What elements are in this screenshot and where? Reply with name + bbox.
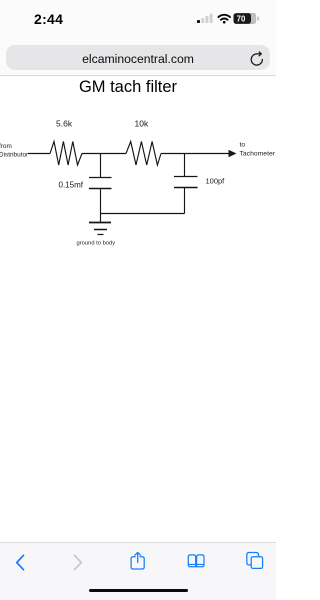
wire: R1 to R2 through node A <box>82 153 126 155</box>
resistor R2 <box>126 142 161 166</box>
page title <box>0 78 256 97</box>
toolbar: tabs icon <box>247 553 263 569</box>
bottom toolbar <box>0 542 276 600</box>
wire: input from Distributor to R1 <box>28 153 50 155</box>
net label "to Tachometer" <box>240 142 276 158</box>
status bar time <box>34 11 63 27</box>
battery with 70 <box>234 13 260 24</box>
svg-text:70: 70 <box>237 14 246 23</box>
net label "from Distributor" <box>0 143 29 159</box>
ground symbol <box>89 223 111 235</box>
wire: C1 down to bottom rail <box>100 189 102 214</box>
cellular signal bars <box>197 20 200 23</box>
svg-text:ground to body: ground to body <box>77 241 116 247</box>
browser chrome top area <box>0 0 276 76</box>
svg-text:5.6k: 5.6k <box>56 119 73 129</box>
wire: C2 down to bottom rail <box>184 188 186 214</box>
svg-text:Tachometer: Tachometer <box>240 151 276 158</box>
svg-text:0.15mf: 0.15mf <box>59 181 84 190</box>
svg-text:from: from <box>0 143 12 150</box>
status bar right icons: signal, wifi, battery 70% <box>195 10 261 25</box>
schematic drawing <box>0 100 276 260</box>
svg-text:Distributor: Distributor <box>0 152 29 159</box>
capacitor C2 <box>174 177 198 188</box>
toolbar: forward chevron <box>75 555 82 569</box>
arrow: output terminal to Tachometer <box>229 150 237 158</box>
reload icon <box>249 51 265 67</box>
toolbar: back chevron <box>17 555 24 569</box>
url bar <box>6 45 270 70</box>
svg-text:10k: 10k <box>135 119 149 129</box>
svg-text:100pf: 100pf <box>206 177 226 186</box>
toolbar: bookmarks icon <box>188 555 204 567</box>
wire: node B down to C2 <box>184 154 186 177</box>
svg-text:to: to <box>240 142 246 149</box>
wifi icon <box>218 15 230 24</box>
resistor R1 <box>50 142 82 166</box>
home indicator <box>89 589 188 592</box>
wire: node A down to C1 <box>100 154 102 178</box>
capacitor C1 <box>89 178 112 189</box>
wire: R2 to output arrow through node B <box>161 153 230 155</box>
wire: bottom rail joining C1 and C2 <box>101 213 185 215</box>
wire: ground stem <box>100 214 102 223</box>
toolbar: share icon <box>131 552 144 569</box>
